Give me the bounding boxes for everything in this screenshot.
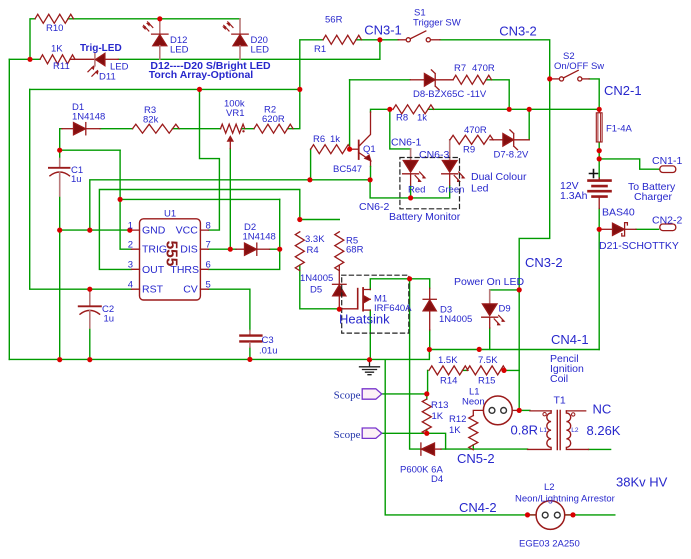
svg-text:D11: D11 — [99, 72, 116, 83]
wire R1 to S1 — [356, 39, 398, 41]
ground — [360, 361, 380, 375]
svg-text:Neon: Neon — [462, 397, 485, 408]
capacitor C2 — [89, 289, 91, 306]
wire D2 cathode to node — [270, 248, 280, 250]
wire ground row — [9, 350, 429, 360]
svg-text:CN3-1: CN3-1 — [364, 23, 402, 38]
node VCC/R1/R2 — [297, 87, 302, 92]
neon lamp L1 — [473, 410, 483, 415]
wire R4 bottom to gate node — [300, 265, 340, 309]
wire R10 left riser — [30, 19, 35, 60]
wire Q1 collector to R8 node — [371, 109, 390, 112]
node R15 output — [501, 368, 506, 373]
svg-text:Dual Colour: Dual Colour — [471, 171, 527, 183]
svg-text:Heatsink: Heatsink — [339, 312, 390, 327]
svg-text:1: 1 — [128, 221, 133, 232]
LED red (battery monitor) — [403, 160, 419, 162]
node RST/C2 — [87, 287, 92, 292]
resistor R9 — [450, 135, 493, 144]
svg-text:68R: 68R — [346, 245, 364, 256]
wire S1 to CN3-2 corner — [440, 40, 550, 79]
svg-text:1N4148: 1N4148 — [243, 232, 276, 243]
LED green (battery monitor) — [442, 160, 458, 162]
svg-text:R10: R10 — [46, 23, 63, 34]
neon lamp L2 lightning arrestor — [528, 514, 537, 516]
svg-text:1k: 1k — [330, 134, 340, 145]
svg-text:Red: Red — [408, 185, 425, 196]
wire VR1 wiper to DIS node — [229, 149, 231, 250]
wire scope1 to R13 top — [381, 393, 426, 395]
svg-text:LED: LED — [251, 45, 270, 56]
svg-text:1K: 1K — [432, 411, 444, 422]
svg-text:CN1-1: CN1-1 — [652, 155, 683, 167]
svg-text:CV: CV — [183, 284, 198, 296]
svg-text:56R: 56R — [325, 15, 343, 26]
wire transformer secondary bottom out — [589, 448, 611, 450]
LED D12 — [159, 19, 161, 34]
wire R13 bottom lead — [426, 430, 428, 434]
wire D21 node down to coil row — [598, 229, 600, 349]
wire R8 to rail — [428, 108, 599, 110]
svg-text:1K: 1K — [51, 44, 63, 55]
node battery neg/D21 — [597, 227, 602, 232]
wire R12 bottom lead — [472, 445, 474, 449]
wire R6 left drop — [310, 149, 312, 180]
node D7 to rail — [527, 107, 532, 112]
svg-text:L1: L1 — [540, 427, 548, 434]
wire R13 node to D4 anode — [427, 433, 446, 449]
diode D5 1N4005 — [338, 265, 340, 284]
wire red LED anode lead — [410, 149, 412, 161]
svg-text:CN2-1: CN2-1 — [604, 83, 642, 98]
svg-text:Scope: Scope — [334, 390, 361, 402]
svg-text:Charger: Charger — [634, 191, 672, 203]
svg-text:1N4005: 1N4005 — [300, 273, 333, 284]
node R8/CN6-1 — [387, 107, 392, 112]
svg-text:RST: RST — [142, 284, 164, 296]
wire GND row — [60, 229, 132, 231]
node pin1 GND — [127, 228, 132, 233]
capacitor C1 — [59, 159, 61, 168]
svg-text:R8: R8 — [396, 113, 408, 124]
node L2 left — [525, 512, 530, 517]
node fuse bottom — [597, 148, 602, 153]
resistor R15 — [467, 366, 506, 375]
resistor R2 — [254, 124, 293, 133]
dashed box heatsink — [342, 275, 409, 333]
svg-text:470R: 470R — [464, 125, 487, 136]
wire fuse to battery + — [598, 142, 600, 180]
svg-text:L2: L2 — [544, 482, 555, 493]
wire pin 7 to D2 — [208, 248, 236, 250]
wire CN6-1 drop to red LED — [390, 109, 411, 149]
svg-text:Coil: Coil — [550, 373, 568, 385]
svg-text:D7-8.2V: D7-8.2V — [494, 150, 530, 161]
svg-text:7: 7 — [206, 240, 211, 251]
svg-text:0.8R: 0.8R — [511, 423, 538, 438]
svg-text:GND: GND — [142, 225, 166, 237]
wire R14 left drop — [427, 370, 429, 394]
potentiometer VR1 — [221, 124, 245, 133]
svg-text:.01u: .01u — [259, 346, 278, 357]
svg-text:BAS40: BAS40 — [602, 207, 635, 219]
connector CN1-1 — [660, 166, 676, 173]
wire VCC row — [30, 88, 300, 90]
svg-text:Green: Green — [438, 185, 464, 196]
wire D4 to R12 and transformer — [441, 448, 528, 450]
svg-text:8: 8 — [206, 221, 211, 232]
diode D4 P600K — [420, 443, 422, 455]
wire neon L1 right to transformer — [519, 409, 530, 411]
wire green LED riser — [449, 140, 451, 161]
wire CN3-2 rail with jog — [519, 79, 550, 411]
svg-text:R11: R11 — [53, 61, 70, 72]
wire pin 5 CV to C3 — [208, 289, 250, 330]
wire R7 right corner to rail row — [486, 80, 509, 110]
svg-text:R4: R4 — [307, 245, 319, 256]
wire TRIG riser — [119, 150, 121, 199]
node neon L1 right — [517, 408, 522, 413]
svg-text:CN3-2: CN3-2 — [525, 255, 563, 270]
node DIS/VR1 wiper — [228, 247, 233, 252]
svg-text:1.5K: 1.5K — [438, 355, 458, 366]
node R13 bottom/scope2 — [424, 431, 429, 436]
svg-text:Torch Array-Optional: Torch Array-Optional — [149, 69, 254, 81]
svg-text:7.5K: 7.5K — [478, 355, 498, 366]
node M1 gate/D5 — [337, 307, 342, 312]
svg-text:OUT: OUT — [142, 264, 165, 276]
svg-text:3.3K: 3.3K — [305, 234, 325, 245]
wire C1 bottom to GND row and ground rail — [59, 196, 61, 360]
switch S1 — [398, 39, 406, 41]
svg-text:Q1: Q1 — [363, 144, 376, 155]
node ground rail C3 — [247, 357, 252, 362]
svg-text:1K: 1K — [449, 425, 461, 436]
wire R15 right stub — [504, 369, 519, 370]
wire R10 output to D12 D20 top — [68, 18, 240, 20]
wire S2 right to fuse node — [589, 79, 599, 109]
svg-text:D4: D4 — [431, 474, 443, 485]
wire red LED bottom lead — [410, 186, 412, 198]
wire R1 left riser from VCC row — [300, 40, 323, 90]
svg-text:CN2-2: CN2-2 — [652, 215, 683, 227]
node OUT/R4/R5 — [297, 217, 302, 222]
wire C3 bottom — [249, 347, 251, 359]
wire zener row left — [350, 79, 411, 81]
svg-text:5: 5 — [206, 280, 211, 291]
resistor R6 — [311, 145, 351, 154]
node M1 drain — [407, 276, 412, 281]
resistor R5 — [335, 232, 344, 271]
svg-text:Battery Monitor: Battery Monitor — [389, 211, 461, 223]
node red LED cathode — [408, 195, 413, 200]
dashed box battery monitor — [400, 158, 460, 209]
LED D9 — [489, 290, 491, 304]
diode D3 1N4005 — [429, 288, 431, 299]
resistor R13 — [422, 399, 431, 435]
node VCC drop — [197, 87, 202, 92]
LED D20 — [239, 19, 241, 34]
resistor R1 — [323, 35, 362, 44]
wire R3 to VR1 — [173, 128, 221, 130]
svg-text:F1-4A: F1-4A — [606, 124, 633, 135]
switch S2 — [552, 78, 560, 80]
svg-text:DIS: DIS — [180, 244, 198, 256]
fuse F1-4A — [598, 109, 600, 113]
node D9/CN3-2 — [517, 287, 522, 292]
svg-text:D9: D9 — [499, 304, 511, 315]
wire D3 bottom lead — [429, 330, 431, 350]
svg-text:Power On LED: Power On LED — [454, 276, 524, 288]
scope probe 1 — [362, 389, 382, 399]
wire THRS drop to D2 node — [279, 199, 281, 249]
wire D7 cathode riser — [528, 109, 530, 140]
svg-text:NC: NC — [593, 402, 612, 417]
node fuse top — [597, 107, 602, 112]
svg-text:EGE03 2A250: EGE03 2A250 — [519, 539, 580, 550]
zener D7 8.2V — [490, 139, 503, 141]
svg-text:1N4148: 1N4148 — [72, 112, 105, 123]
svg-text:CN4-2: CN4-2 — [459, 500, 497, 515]
svg-text:38Kv HV: 38Kv HV — [616, 475, 668, 490]
wire R14 R15 mid link — [463, 369, 468, 371]
svg-text:4: 4 — [128, 280, 133, 291]
svg-text:VR1: VR1 — [226, 108, 244, 119]
svg-text:R14: R14 — [440, 376, 457, 387]
svg-text:8.26K: 8.26K — [587, 423, 621, 438]
node C1/D1 — [57, 148, 62, 153]
node S2 input — [547, 76, 552, 81]
U1 pin stubs — [132, 230, 209, 289]
svg-text:R15: R15 — [478, 376, 495, 387]
node CN1-1 branch — [597, 156, 602, 161]
svg-text:Trigger SW: Trigger SW — [413, 18, 461, 29]
wire R2 right riser — [288, 89, 300, 128]
svg-text:CN6-2: CN6-2 — [359, 201, 390, 213]
svg-text:R13: R13 — [431, 400, 448, 411]
svg-text:T1: T1 — [554, 395, 566, 407]
diode D2 — [236, 248, 245, 250]
wire emitter node down to LED common — [370, 180, 450, 198]
svg-text:CN5-2: CN5-2 — [457, 451, 495, 466]
wire GND branch up to emitter row — [90, 180, 370, 230]
node R10/R11 junction — [27, 57, 32, 62]
wire C1 top lead — [59, 150, 61, 158]
svg-text:On/OFF Sw: On/OFF Sw — [554, 61, 604, 72]
diode D1 — [62, 128, 74, 130]
node R6 drop — [307, 177, 312, 182]
wire D21 cathode to CN2-2 — [636, 228, 659, 230]
resistor R8 — [393, 105, 434, 114]
node ground rail C1 — [57, 357, 62, 362]
wire M1 source down to ground row — [369, 310, 371, 360]
svg-text:620R: 620R — [262, 114, 285, 125]
wire left rail down — [8, 59, 10, 359]
svg-text:6: 6 — [206, 260, 211, 271]
wire D2 node to pin 6 — [208, 249, 279, 269]
node D2 cathode — [277, 247, 282, 252]
svg-text:Neon/Lightning Arrestor: Neon/Lightning Arrestor — [515, 494, 615, 505]
svg-text:Trig-LED: Trig-LED — [80, 43, 122, 54]
node CN3-1 — [377, 37, 382, 42]
svg-text:1u: 1u — [104, 314, 115, 325]
node R6/Q1 base — [347, 147, 352, 152]
wire OUT pin 3 loop to R4 top — [99, 190, 299, 270]
node TRIG link — [118, 197, 123, 202]
svg-text:D5: D5 — [310, 285, 322, 296]
wire R11 row left end — [9, 58, 40, 60]
svg-text:R12: R12 — [449, 414, 466, 425]
svg-text:R6: R6 — [313, 134, 325, 145]
node ground rail C2 — [87, 357, 92, 362]
resistor R12 — [469, 416, 478, 450]
wire CN4-2 riser — [385, 360, 536, 515]
IC U1 555 body — [140, 219, 201, 300]
wire power-on LED branch — [490, 289, 520, 291]
svg-text:1u: 1u — [71, 174, 82, 185]
svg-text:VCC: VCC — [176, 225, 199, 237]
svg-text:BC547: BC547 — [333, 164, 362, 175]
svg-text:1k: 1k — [417, 113, 427, 124]
svg-text:CN6-3: CN6-3 — [419, 149, 450, 161]
node Q1 emitter — [368, 177, 373, 182]
resistor R14 — [429, 366, 468, 375]
wire drain net drop to D4 — [410, 279, 421, 449]
svg-text:U1: U1 — [164, 209, 176, 220]
wire D11 cathode to right, row to CN3-1 riser — [118, 40, 380, 60]
svg-text:CN3-2: CN3-2 — [499, 24, 537, 39]
wire battery - down to D21 node — [598, 209, 600, 230]
svg-text:CN4-1: CN4-1 — [551, 332, 589, 347]
wire VCC rail to RST — [30, 89, 132, 289]
battery BT1 12V — [589, 179, 611, 182]
svg-text:R9: R9 — [463, 145, 475, 156]
svg-text:470R: 470R — [472, 63, 495, 74]
capacitor C3 — [249, 331, 251, 335]
node R13 top/scope1 — [424, 391, 429, 396]
wire VR1 to R2 — [241, 128, 254, 130]
resistor R3 — [133, 124, 180, 133]
svg-text:R1: R1 — [314, 44, 326, 55]
svg-text:2: 2 — [128, 240, 133, 251]
wire R4 top to R5 top — [300, 219, 340, 221]
node D12 anode junction — [157, 16, 162, 21]
transformer T1 — [530, 410, 551, 412]
node R7 to rail — [507, 107, 512, 112]
connector CN2-2 — [660, 224, 676, 231]
wire M1 drain up and over to D3 — [370, 279, 429, 290]
svg-text:D21-SCHOTTKY: D21-SCHOTTKY — [599, 240, 679, 252]
wire TRIG corner to pin 2 — [120, 199, 131, 249]
LED D11 — [70, 58, 95, 60]
node coil row mark — [477, 347, 482, 352]
transistor M1 IRF640A — [339, 308, 357, 310]
wire CN4-2 row right — [565, 514, 615, 516]
wire D9 bottom lead — [489, 328, 491, 349]
schottky diode D21 BAS40 — [601, 228, 613, 230]
wire CN1-1 branch — [599, 159, 659, 169]
wire THRS link row — [120, 198, 280, 200]
resistor R7 — [453, 75, 492, 84]
wire scope2 to R13 bottom — [381, 432, 426, 434]
svg-text:L2: L2 — [571, 427, 579, 434]
resistor R11 — [40, 55, 75, 64]
node L2 right — [570, 512, 575, 517]
node ground — [367, 357, 372, 362]
resistor R10 — [35, 14, 74, 23]
node GND row left — [87, 228, 92, 233]
wire C1 node row — [60, 149, 120, 151]
wire D1 to R3 — [100, 128, 133, 130]
svg-text:Scope: Scope — [334, 429, 361, 441]
wire D1 anode hook — [60, 129, 62, 151]
svg-text:R7: R7 — [454, 63, 466, 74]
wire R13 top lead — [426, 394, 428, 399]
wire C2 bottom lead — [89, 328, 91, 360]
svg-text:555: 555 — [163, 241, 180, 267]
svg-text:LED: LED — [170, 45, 189, 56]
zener D8 BZX65C — [410, 79, 424, 81]
wire coil row CN4-1 — [429, 349, 599, 351]
node C1 bottom — [57, 228, 62, 233]
transistor Q1 — [350, 148, 359, 150]
node D3/coil row — [427, 347, 432, 352]
wire VCC drop to pin 8 — [200, 89, 220, 230]
resistor R4 — [295, 232, 304, 271]
svg-text:3: 3 — [128, 260, 133, 271]
svg-text:1N4005: 1N4005 — [439, 314, 472, 325]
svg-text:Led: Led — [471, 183, 489, 195]
scope probe 2 — [362, 428, 382, 438]
svg-text:D8-BZX65C -11V: D8-BZX65C -11V — [413, 89, 487, 100]
svg-text:C3: C3 — [262, 335, 274, 346]
wire zener row left riser — [349, 80, 351, 149]
svg-text:1.3Ah: 1.3Ah — [560, 190, 588, 202]
svg-text:CN6-1: CN6-1 — [391, 137, 422, 149]
svg-text:82k: 82k — [143, 115, 159, 126]
